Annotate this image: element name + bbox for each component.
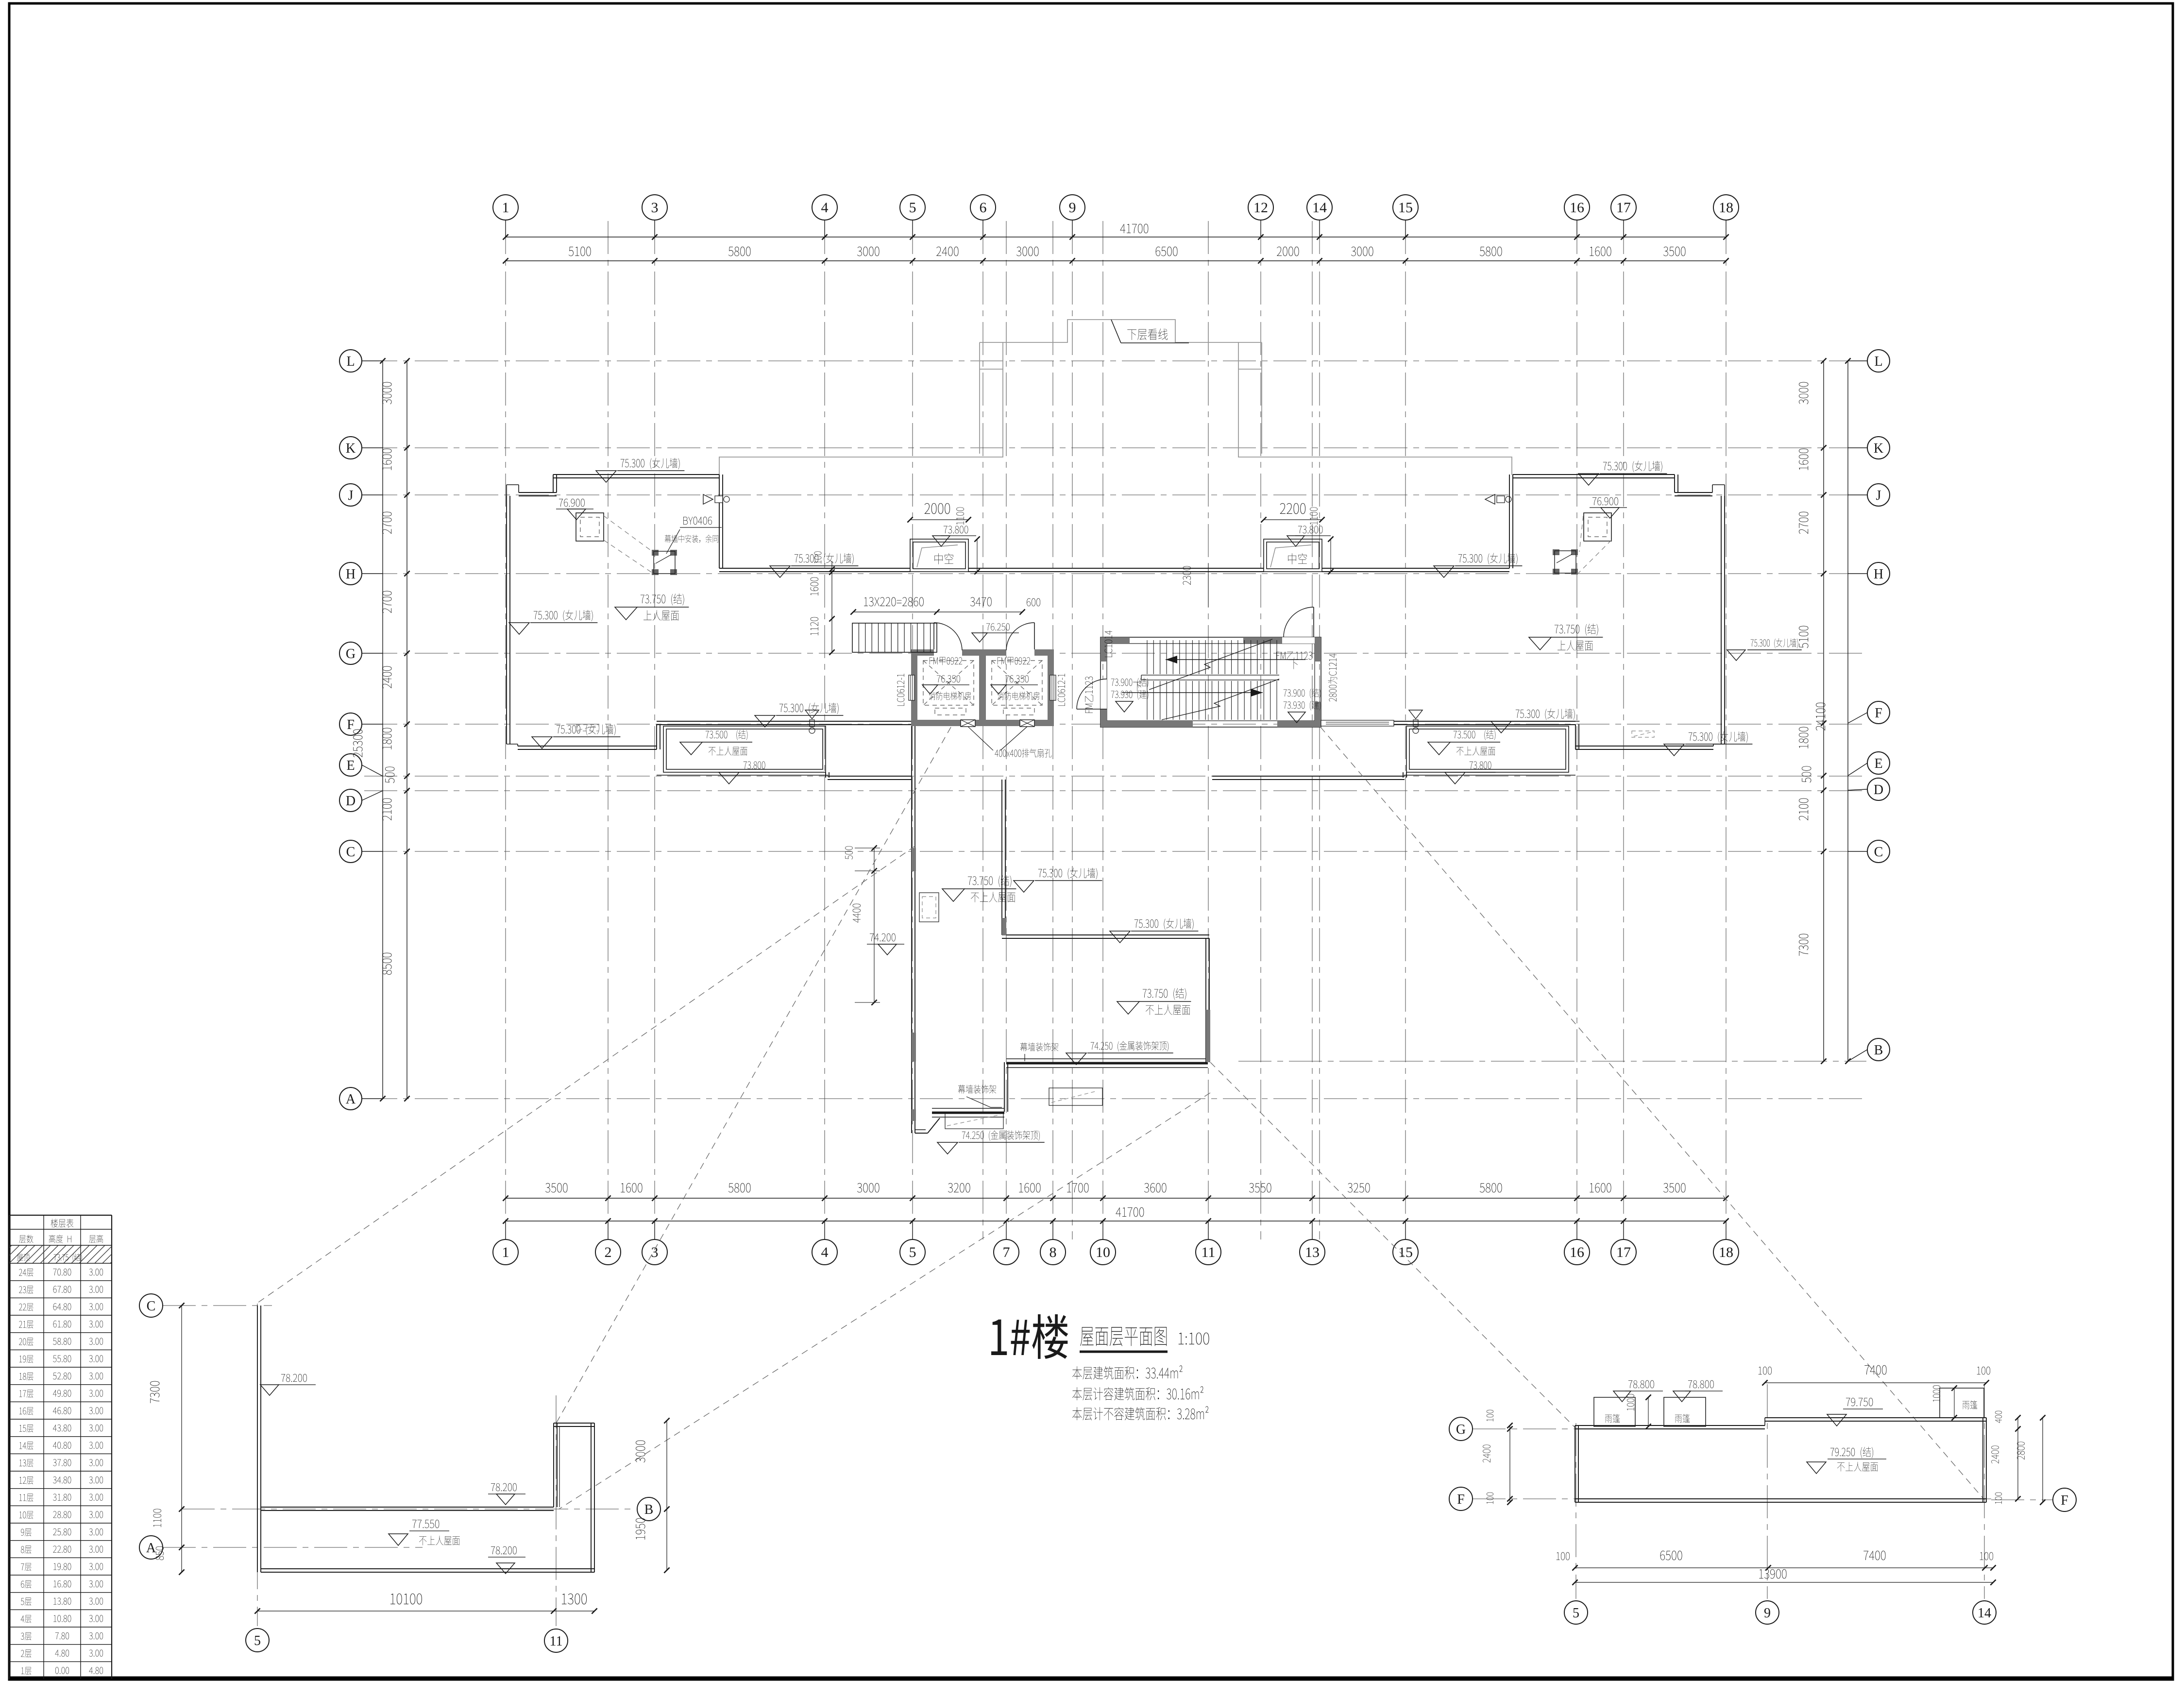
svg-text:6: 6 bbox=[980, 200, 987, 216]
svg-text:5: 5 bbox=[909, 200, 916, 216]
svg-text:L: L bbox=[346, 354, 355, 369]
svg-text:B: B bbox=[1874, 1043, 1883, 1058]
svg-text:9: 9 bbox=[1069, 200, 1076, 216]
svg-text:1: 1 bbox=[502, 1244, 509, 1260]
svg-text:J: J bbox=[348, 488, 354, 503]
svg-text:14: 14 bbox=[1978, 1606, 1991, 1621]
svg-text:E: E bbox=[346, 758, 355, 773]
svg-text:1: 1 bbox=[502, 200, 509, 216]
svg-text:5: 5 bbox=[909, 1244, 916, 1260]
svg-text:2: 2 bbox=[605, 1244, 612, 1260]
svg-text:L: L bbox=[1874, 354, 1882, 369]
svg-text:9: 9 bbox=[1764, 1606, 1771, 1621]
svg-text:16: 16 bbox=[1570, 200, 1584, 216]
svg-text:7: 7 bbox=[1003, 1244, 1010, 1260]
svg-text:14: 14 bbox=[1312, 200, 1327, 216]
svg-text:17: 17 bbox=[1616, 200, 1631, 216]
svg-text:5: 5 bbox=[254, 1633, 261, 1648]
svg-text:A: A bbox=[146, 1541, 156, 1556]
svg-text:15: 15 bbox=[1398, 200, 1413, 216]
svg-text:C: C bbox=[147, 1299, 156, 1314]
svg-text:K: K bbox=[346, 441, 356, 456]
svg-text:18: 18 bbox=[1719, 1244, 1733, 1260]
svg-text:17: 17 bbox=[1616, 1244, 1631, 1260]
svg-text:F: F bbox=[2061, 1493, 2068, 1508]
svg-text:3: 3 bbox=[651, 1244, 659, 1260]
svg-text:F: F bbox=[1875, 706, 1882, 721]
svg-text:12: 12 bbox=[1253, 200, 1268, 216]
svg-text:4: 4 bbox=[821, 200, 829, 216]
svg-text:D: D bbox=[1874, 782, 1883, 798]
svg-text:3: 3 bbox=[651, 200, 659, 216]
svg-text:E: E bbox=[1874, 756, 1882, 771]
svg-text:G: G bbox=[1456, 1422, 1466, 1437]
svg-text:18: 18 bbox=[1719, 200, 1733, 216]
svg-text:F: F bbox=[347, 717, 355, 732]
svg-text:5: 5 bbox=[1573, 1606, 1579, 1621]
svg-text:16: 16 bbox=[1570, 1244, 1584, 1260]
svg-text:H: H bbox=[1874, 567, 1883, 582]
svg-text:K: K bbox=[1874, 441, 1883, 456]
svg-text:13: 13 bbox=[1305, 1244, 1320, 1260]
svg-text:11: 11 bbox=[550, 1634, 563, 1649]
svg-text:11: 11 bbox=[1202, 1244, 1216, 1260]
svg-text:10: 10 bbox=[1096, 1244, 1110, 1260]
svg-text:H: H bbox=[346, 567, 356, 582]
svg-text:D: D bbox=[346, 794, 356, 809]
svg-text:J: J bbox=[1876, 488, 1881, 503]
svg-text:F: F bbox=[1457, 1492, 1465, 1507]
svg-text:B: B bbox=[644, 1502, 654, 1517]
svg-text:G: G bbox=[346, 646, 356, 662]
svg-text:C: C bbox=[346, 845, 356, 860]
svg-text:4: 4 bbox=[821, 1244, 829, 1260]
svg-text:8: 8 bbox=[1050, 1244, 1057, 1260]
svg-text:C: C bbox=[1874, 845, 1883, 860]
svg-text:A: A bbox=[346, 1092, 356, 1107]
